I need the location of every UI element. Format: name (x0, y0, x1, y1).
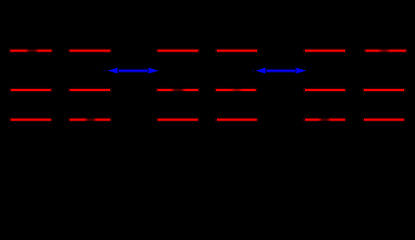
energy level row3 segment 2 (dashed, with gap) (70, 118, 111, 122)
energy level row1 segment 1 (dashed, with gap) (10, 49, 51, 53)
energy level row3 segment 6 (364, 118, 404, 122)
energy level row1 segment 4 (217, 49, 257, 53)
energy level row2 segment 1 (11, 88, 51, 92)
energy level row3 segment 4 (217, 118, 257, 122)
energy level row2 segment 6 (364, 88, 404, 92)
energy level row2 segment 4 (dashed, faint gap) (216, 88, 256, 92)
energy level row3 segment 5 (dashed, with gap) (305, 118, 345, 122)
energy level row1 segment 6 (dashed, with gap) (366, 49, 406, 53)
energy level row2 segment 3 (dashed, with gap) (157, 88, 198, 92)
energy level row1 segment 2 (70, 49, 111, 53)
energy level row3 segment 1 (11, 118, 51, 122)
energy level row2 segment 2 (70, 88, 110, 92)
coupling arrow 1 (blue double-headed) (103, 67, 159, 74)
coupling arrow 2 (blue double-headed) (252, 67, 307, 74)
energy level row1 segment 3 (158, 49, 199, 53)
energy level row2 segment 5 (305, 88, 345, 92)
energy level row1 segment 5 (305, 49, 345, 53)
energy level row3 segment 3 (158, 118, 198, 122)
